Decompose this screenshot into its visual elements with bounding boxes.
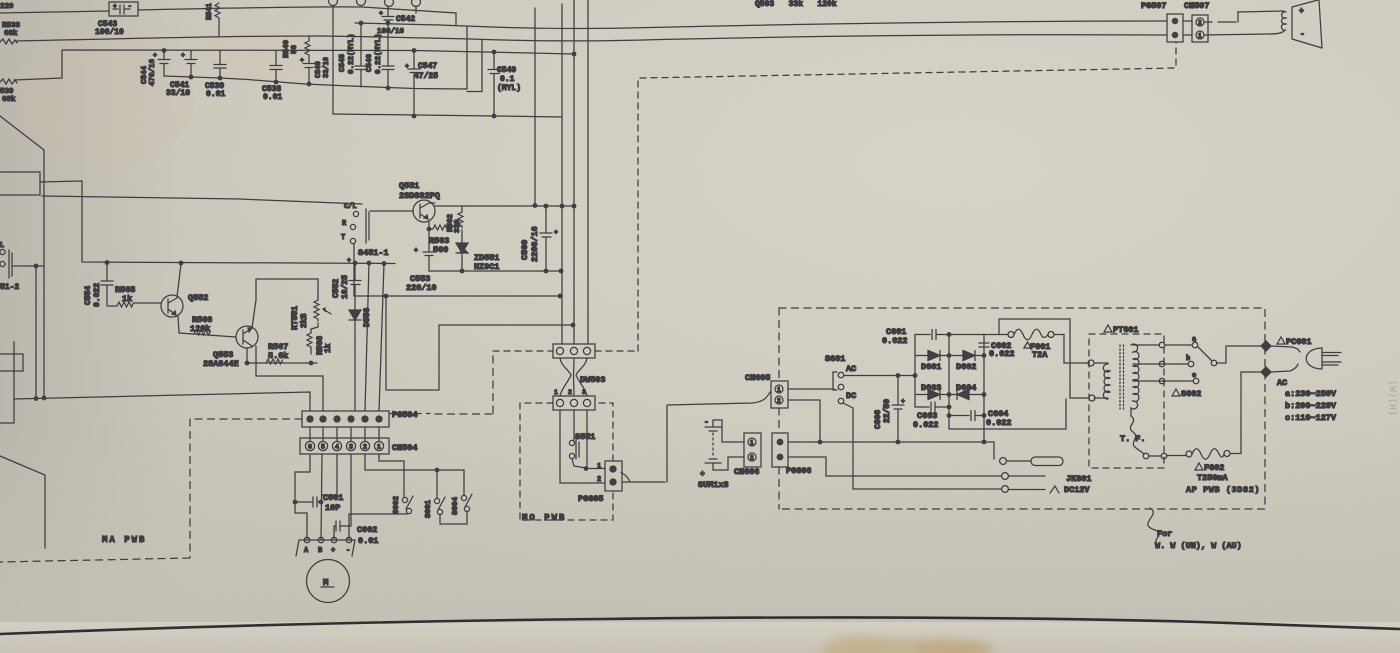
svg-text:1k: 1k <box>122 294 132 304</box>
bridge left vertical <box>914 335 916 408</box>
junction C539 bottom <box>218 76 222 80</box>
junction C554 top <box>105 261 109 265</box>
wire L-shape left edge <box>0 342 14 423</box>
resistor R567 <box>266 342 288 364</box>
thermal fuse T.F. <box>1120 416 1186 459</box>
switch S002 <box>393 495 413 514</box>
wire DW503 pin1 down to PG605 pin2 <box>560 410 605 483</box>
wire rail C <box>14 50 574 80</box>
capacitor C554 <box>84 263 113 308</box>
wire DC contact down <box>843 403 853 489</box>
junction before PG605 <box>584 467 588 471</box>
svg-text:2: 2 <box>1198 20 1202 27</box>
capacitor C544 <box>141 51 170 87</box>
junction col x369 <box>367 261 371 265</box>
svg-text:+: + <box>331 547 335 555</box>
svg-text:0.22(MYL): 0.22(MYL) <box>348 33 356 74</box>
wire PG606 pin2 to jack row2 <box>788 457 1001 476</box>
wire CN504 pin5 to motor B <box>321 454 322 540</box>
wire S451-1 T contact down to rail H <box>353 244 355 296</box>
svg-text:T2A: T2A <box>1032 350 1048 360</box>
wire rail D (bottom of capacitor bank) <box>164 27 467 89</box>
svg-text:+: + <box>300 57 304 64</box>
fuse F601 <box>984 329 1087 363</box>
svg-text:1: 1 <box>750 440 754 447</box>
junction C542 bottom <box>386 21 390 25</box>
svg-text:CN507: CN507 <box>1184 1 1210 11</box>
svg-text:PG605: PG605 <box>578 494 604 504</box>
svg-text:S602: S602 <box>1181 389 1201 399</box>
svg-text:5.6k: 5.6k <box>268 351 288 361</box>
junction node on rail C at C549 <box>492 50 496 54</box>
junction rail H end <box>558 294 562 298</box>
motor terminal bracket <box>296 537 355 556</box>
wire long column x574 <box>573 0 575 344</box>
capacitor C603 <box>913 402 949 430</box>
wire CN507 pin1 to voice coil <box>1204 31 1284 35</box>
svg-text:T. F.: T. F. <box>1120 434 1146 444</box>
svg-text:CN606: CN606 <box>734 467 760 477</box>
svg-text:2: 2 <box>568 389 572 396</box>
svg-text:1k: 1k <box>324 343 333 353</box>
svg-text:2kB: 2kB <box>300 313 309 328</box>
junction C604 left <box>947 414 951 418</box>
wire rail E <box>333 114 562 344</box>
svg-text:2SD882PQ: 2SD882PQ <box>399 191 440 201</box>
wire Q553 collector up and RT551 top rail <box>252 279 318 328</box>
battery SUM1x8 <box>698 418 744 490</box>
node diamond AC neutral <box>1261 367 1271 377</box>
resistor R566 <box>190 315 212 335</box>
svg-text:+: + <box>347 257 351 264</box>
junction C538 bottom <box>274 80 278 84</box>
junction C547 bottom on rail E <box>412 114 416 118</box>
svg-text:6: 6 <box>308 444 312 451</box>
svg-text:b:200~220V: b:200~220V <box>1285 401 1337 411</box>
junction D row2 mid <box>947 393 951 397</box>
transistor Q551 <box>399 181 440 248</box>
junction rail I end <box>571 323 575 327</box>
svg-text:a:230~250V: a:230~250V <box>1285 389 1337 399</box>
svg-text:(MYL): (MYL) <box>497 84 521 93</box>
wire rail K to PG504 pin5 <box>256 376 323 411</box>
junction rail F x574 <box>572 204 576 208</box>
wire S551 bottom to junction <box>572 459 586 468</box>
connector CN605 <box>745 373 788 408</box>
junction C603 mid <box>947 405 951 409</box>
wire column x535 <box>534 8 536 205</box>
zener diode ZD551 <box>456 230 500 272</box>
page bottom edge <box>0 617 1400 634</box>
svg-text:c:110~127V: c:110~127V <box>1285 413 1337 423</box>
svg-text:+: + <box>405 63 409 70</box>
svg-text:-: - <box>346 547 350 555</box>
svg-text:51-2: 51-2 <box>0 283 19 292</box>
svg-text:C554: C554 <box>84 286 93 305</box>
capacitor C541 <box>166 51 197 99</box>
svg-text:PG507: PG507 <box>1141 1 1167 11</box>
junction C541 bottom <box>189 75 193 79</box>
svg-text:+: + <box>554 229 558 236</box>
svg-text:-: - <box>704 418 709 427</box>
node diamond AC line <box>1261 341 1271 351</box>
svg-text:539: 539 <box>0 88 14 96</box>
resistor R539 <box>0 79 17 104</box>
wire rail to switch S451-1 <box>42 196 362 204</box>
svg-text:0.022: 0.022 <box>913 420 939 430</box>
resistor R541 <box>206 0 220 36</box>
svg-text:220/10: 220/10 <box>406 283 437 293</box>
capacitor C606 <box>874 376 905 443</box>
wire Q552 collector up <box>177 264 181 297</box>
svg-text:D602: D602 <box>956 362 976 372</box>
transformer PT601 dashed box <box>1089 334 1164 468</box>
wire DW503 pin3 down <box>586 410 587 468</box>
junction C549 bottom on rail E <box>492 114 496 118</box>
capacitor C539 <box>205 51 226 100</box>
svg-text:S004: S004 <box>452 496 460 515</box>
junction node on rail C at C547 <box>412 49 416 53</box>
capacitor C002 <box>334 521 378 546</box>
svg-text:120k: 120k <box>190 324 210 334</box>
switch S551 <box>569 410 595 459</box>
svg-text:W. W (UN), W (AU): W. W (UN), W (AU) <box>1155 541 1242 551</box>
svg-text:PG504: PG504 <box>392 410 418 420</box>
junction R568 bottom <box>309 361 313 365</box>
svg-text:3: 3 <box>582 389 586 396</box>
left edge box connector <box>0 172 40 195</box>
connector PG606 <box>772 433 812 476</box>
svg-text:-: - <box>128 3 132 10</box>
capacitor C553 <box>406 247 437 293</box>
junction pin2 on rail <box>818 440 822 444</box>
connector PG504 <box>302 410 418 427</box>
wire CN504 pin4 <box>322 454 337 495</box>
capacitor C549 <box>488 52 521 116</box>
top connector circles <box>329 0 421 13</box>
svg-text:Q552: Q552 <box>188 293 208 303</box>
transformer secondary coil <box>1131 344 1139 416</box>
wire Z-jog rail H to rail I <box>386 296 439 390</box>
dashed boundary MA PWB <box>0 352 493 562</box>
wire column V2 <box>35 266 37 398</box>
svg-text:2200/16: 2200/16 <box>530 226 540 262</box>
svg-text:C540: C540 <box>315 61 323 78</box>
junction R567 left <box>245 361 249 365</box>
svg-text:1: 1 <box>377 444 381 451</box>
diode D602 <box>949 351 984 373</box>
resistor R540 <box>283 36 310 58</box>
twisted wires DW503 <box>560 358 587 396</box>
svg-text:0.1: 0.1 <box>500 75 515 84</box>
wire CN504 pin1 to S002 <box>379 454 404 497</box>
speaker <box>1292 0 1322 48</box>
resistor R538 <box>0 22 21 44</box>
junction D row1 right <box>982 354 986 358</box>
svg-text:0.01: 0.01 <box>263 93 282 102</box>
junction C604 right <box>982 414 986 418</box>
svg-text:S002: S002 <box>393 495 401 514</box>
svg-text:Q503 33k 120k: Q503 33k 120k <box>755 0 837 9</box>
junction S001 top <box>435 468 439 472</box>
svg-text:+: + <box>414 247 418 254</box>
switch S001 <box>425 470 445 518</box>
left edge small box <box>0 354 23 371</box>
svg-text:S601: S601 <box>825 354 845 364</box>
capacitor C001 <box>295 493 343 513</box>
junction C606 bottom <box>896 440 900 444</box>
svg-text:D601: D601 <box>921 362 941 372</box>
junction rail G C509 <box>544 269 548 273</box>
resistor R565 <box>107 285 161 307</box>
svg-text:5: 5 <box>321 444 325 451</box>
motor M <box>307 560 350 603</box>
switch S601 <box>788 354 856 404</box>
svg-text:C546: C546 <box>366 53 374 72</box>
wire CN504 pin3 to C002 <box>345 454 351 526</box>
diode D603 <box>915 383 949 400</box>
svg-text:T: T <box>341 234 345 242</box>
wires PG504 to CN504 stubs <box>310 427 379 441</box>
svg-text:CN605: CN605 <box>745 373 771 383</box>
svg-text:S001: S001 <box>425 499 433 518</box>
connector DW503 lower <box>553 389 595 410</box>
jack JK601 <box>1000 457 1092 495</box>
junction rail F x546 <box>544 204 548 208</box>
junction Q552 collector <box>179 261 183 265</box>
junction col x384 <box>382 262 386 266</box>
wire CN507 pin2 to voice coil <box>1204 11 1284 22</box>
switch S451-1 <box>341 203 389 258</box>
capacitor C547 <box>405 51 438 117</box>
svg-text:F602: F602 <box>1204 463 1224 473</box>
capacitor C602 <box>979 341 1015 359</box>
transistor Q553 <box>203 326 258 369</box>
svg-text:1: 1 <box>597 463 601 471</box>
svg-text:2: 2 <box>363 444 367 451</box>
svg-text:Q551: Q551 <box>399 181 419 191</box>
svg-text:+: + <box>181 52 185 59</box>
fuse F602 <box>1186 372 1262 483</box>
wire column x384 to CN504 pin1 <box>379 264 384 412</box>
svg-text:AC: AC <box>1277 378 1287 388</box>
bridge mid vertical <box>948 335 950 430</box>
wire column x333 <box>332 6 334 114</box>
svg-text:33/10: 33/10 <box>323 57 331 78</box>
wire bridge mid output to transformer <box>949 399 1066 429</box>
junction D row1 mid <box>947 354 951 358</box>
junction C544 top <box>162 49 166 53</box>
junction col x355 <box>353 261 357 265</box>
svg-text:2: 2 <box>597 476 601 484</box>
diode D556 <box>349 308 372 411</box>
svg-text:S551: S551 <box>575 432 595 442</box>
svg-text:SUM1x8: SUM1x8 <box>698 480 729 490</box>
bridge right vertical <box>983 335 985 443</box>
label For W.W note <box>1155 529 1242 551</box>
svg-text:c: c <box>1192 372 1196 380</box>
junction bridge bottom on rail <box>982 440 986 444</box>
resistor R527 (clipped) <box>0 3 14 11</box>
junction R563 at emitter <box>427 227 431 231</box>
wire long column x588 <box>587 0 589 344</box>
connector DW503 upper <box>553 344 595 358</box>
svg-text:PC601: PC601 <box>1286 337 1312 347</box>
svg-text:DC: DC <box>846 391 856 401</box>
capacitor C540 <box>300 57 331 84</box>
connector CN606 <box>734 433 761 477</box>
wire stubs PG507-CN507 <box>1183 21 1192 35</box>
resistor R568 <box>307 323 333 355</box>
junction rail G ZD551 <box>460 269 464 273</box>
resistor R562 <box>447 206 463 233</box>
speaker voice coil <box>1281 12 1286 30</box>
paper below bottom page edge <box>0 622 1400 653</box>
connector PG605 <box>578 461 622 504</box>
diode D604 <box>949 383 984 400</box>
svg-text:1: 1 <box>554 389 558 396</box>
squiggle note mark <box>1148 508 1159 545</box>
svg-text:68k: 68k <box>4 30 18 38</box>
wire diagonal into column V1 <box>0 116 44 150</box>
svg-text:C606: C606 <box>874 410 883 429</box>
svg-text:(W)(H): (W)(H) <box>1386 380 1398 416</box>
capacitor C546 <box>366 23 394 88</box>
wire DC down to jack row3 <box>853 488 1001 490</box>
svg-text:RT551: RT551 <box>291 306 300 330</box>
wire rail H <box>354 295 560 297</box>
transformer core <box>1120 345 1124 409</box>
connector PG507 <box>1141 1 1183 42</box>
svg-text:R540: R540 <box>283 39 291 58</box>
wire CN504 pin2 to switch rail <box>365 454 464 470</box>
svg-text:4: 4 <box>335 444 339 451</box>
svg-text:S451-1: S451-1 <box>358 248 389 258</box>
wire AC contact to bridge <box>844 375 915 377</box>
svg-text:DW503: DW503 <box>580 375 606 385</box>
svg-text:For: For <box>1157 529 1172 539</box>
transistor Q552 <box>161 293 208 317</box>
resistor R563 <box>429 225 461 255</box>
capacitor C538 <box>262 51 282 103</box>
svg-text:PG606: PG606 <box>786 466 812 476</box>
svg-text:470/16: 470/16 <box>149 58 157 86</box>
junction C001 right <box>319 500 323 504</box>
wire CN504 pin6 jog to motor A <box>295 454 310 540</box>
junction C601 mid vertical <box>947 333 951 337</box>
capacitor C604 <box>949 409 1012 428</box>
wire lower-left diagonal <box>0 456 45 548</box>
dashed stubs at DW503 <box>493 42 1176 351</box>
capacitor C545 <box>339 23 367 87</box>
svg-text:PT601: PT601 <box>1113 325 1139 335</box>
connector CN507 <box>1184 1 1210 42</box>
wire S001 S004 bottom rail <box>440 511 467 524</box>
svg-text:C509: C509 <box>520 240 530 260</box>
junction rail H x386 <box>384 294 388 298</box>
wire column x369 to CN504 pin2 <box>365 263 369 411</box>
svg-text:22/50: 22/50 <box>883 399 892 423</box>
svg-text:2SA844E: 2SA844E <box>203 359 239 369</box>
svg-text:0.01: 0.01 <box>206 90 225 99</box>
secondary taps <box>1133 336 1199 384</box>
svg-text:-: - <box>1300 30 1305 39</box>
svg-text:560: 560 <box>433 245 448 255</box>
wire column x562 upper <box>561 4 563 117</box>
svg-text:b: b <box>1186 355 1190 363</box>
svg-text:10P: 10P <box>325 503 340 513</box>
svg-text:0.22(MYL): 0.22(MYL) <box>375 33 383 74</box>
wire from box to C554 rail corner <box>40 181 395 264</box>
svg-text:CN504: CN504 <box>392 443 418 453</box>
junction C001 left <box>293 500 297 504</box>
wire AC return U-detour to primary bottom <box>999 319 1088 398</box>
svg-text:100/10: 100/10 <box>95 28 124 37</box>
wire Q553 collector column down <box>255 346 257 376</box>
wire rail A to PG507 pin2 <box>16 35 1167 41</box>
svg-text:T250mA: T250mA <box>1197 473 1229 483</box>
svg-text:47/25: 47/25 <box>414 72 438 81</box>
svg-text:+: + <box>700 470 705 479</box>
capacitor C552 <box>332 257 361 308</box>
junction C606 top <box>896 374 900 378</box>
wire rail I <box>439 324 573 326</box>
svg-text:0.022: 0.022 <box>989 349 1015 359</box>
svg-text:56: 56 <box>291 44 299 54</box>
svg-text:C544: C544 <box>141 65 149 84</box>
svg-text:+: + <box>379 10 383 17</box>
svg-text:33/10: 33/10 <box>166 89 190 98</box>
junction rail F x535 <box>533 204 537 208</box>
wire column V1 <box>43 150 45 397</box>
junction rail J V1 <box>42 396 46 400</box>
wire Q553 emitter rail <box>247 348 317 363</box>
svg-text:0.01: 0.01 <box>358 536 378 546</box>
junction bridge left AC <box>913 374 917 378</box>
junction V2 top <box>34 264 38 268</box>
wire rail F (Q551 collector rail) <box>435 205 575 207</box>
wire PG605 to CN605 <box>621 473 630 482</box>
connector CN504 <box>300 438 418 454</box>
svg-text:2: 2 <box>750 455 754 462</box>
svg-text:0.022: 0.022 <box>882 336 908 346</box>
wire junction to PG605 pin1 <box>586 468 605 470</box>
transformer primary coil <box>1088 360 1110 401</box>
svg-text:C545: C545 <box>339 53 347 72</box>
wire CN605 pin2 down to rail <box>788 400 820 442</box>
junction R540 bottom <box>307 82 311 86</box>
junction C545 top <box>359 21 363 25</box>
capacitor C542 <box>377 6 415 36</box>
svg-text:+: + <box>1299 7 1304 16</box>
capacitor C543 <box>95 2 138 37</box>
svg-text:220: 220 <box>0 3 14 11</box>
svg-text:C552: C552 <box>332 279 341 298</box>
voltage selector S602 <box>1172 346 1262 399</box>
capacitor C601 <box>882 327 984 346</box>
junction D row2 right <box>982 393 986 397</box>
wire rail J to PG504 pin6 <box>14 392 310 411</box>
label PT601 <box>1104 325 1139 335</box>
diode D601 <box>915 351 949 373</box>
svg-text:C542: C542 <box>396 15 415 24</box>
svg-text:MO PWB: MO PWB <box>522 513 566 523</box>
svg-text:C001: C001 <box>323 493 343 503</box>
wire bottom rail AC common <box>788 442 994 458</box>
svg-text:3: 3 <box>349 444 353 451</box>
switch S451-2 (left edge) <box>0 242 19 292</box>
svg-text:C547: C547 <box>418 62 437 71</box>
